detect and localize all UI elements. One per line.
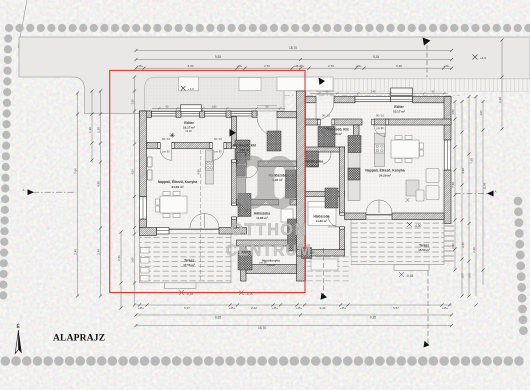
svg-text:A: A	[495, 190, 497, 194]
svg-text:7,36 m²: 7,36 m²	[332, 132, 342, 136]
left terrace	[140, 234, 232, 283]
svg-text:2,40: 2,40	[472, 247, 476, 253]
right bedroom bottom wall	[297, 250, 345, 257]
svg-text:9,35: 9,35	[215, 316, 221, 320]
left terrace sliding door line	[169, 228, 219, 230]
svg-text:2,40: 2,40	[117, 255, 121, 261]
svg-text:11,80 m²: 11,80 m²	[256, 216, 267, 220]
sidewalk pavers strip right of house	[295, 79, 530, 91]
section marker right	[455, 190, 497, 197]
svg-text:5,30: 5,30	[396, 64, 402, 68]
left corridor door	[237, 148, 249, 160]
right bath / bedroom wall	[306, 192, 345, 197]
furniture: left kitchen island	[206, 150, 214, 184]
rowB ticks	[134, 313, 453, 316]
right apron step	[311, 259, 338, 270]
svg-text:17,56 m²: 17,56 m²	[183, 263, 195, 267]
svg-text:15,50 m²: 15,50 m²	[418, 248, 430, 252]
rotated side labels	[73, 97, 502, 279]
left kitchen appliances	[237, 153, 246, 164]
left utility washer	[238, 251, 252, 270]
plot boundary line top-left	[18, 0, 27, 48]
left col ticks	[76, 75, 136, 309]
left terrace step	[165, 283, 197, 289]
street / pavement divider line	[155, 76, 284, 78]
svg-text:11,80 m²: 11,80 m²	[316, 219, 327, 223]
svg-text:9,35: 9,35	[215, 55, 221, 59]
Előtér star marker	[170, 133, 175, 138]
svg-text:9,35: 9,35	[370, 316, 376, 320]
left unit wall under entry hall	[147, 143, 161, 149]
left bath / bedroom wall	[237, 200, 279, 206]
right hob	[375, 144, 384, 153]
svg-text:4,90: 4,90	[196, 169, 200, 175]
living room section dash	[200, 150, 202, 282]
left wall window	[140, 197, 147, 220]
right unit top wall	[306, 97, 317, 103]
shared entry porch canopy	[277, 77, 333, 91]
level mark below left terrace	[179, 290, 184, 295]
rug / coffee table right living	[406, 180, 419, 196]
watermark letter C	[269, 161, 290, 204]
svg-text:10,17 m²: 10,17 m²	[393, 110, 405, 114]
right bedroom door	[328, 215, 340, 227]
svg-text:18,70: 18,70	[289, 46, 297, 50]
level mark right steps	[399, 272, 404, 277]
right wardrobe	[325, 188, 338, 208]
svg-text:+4,0: +4,0	[188, 87, 194, 91]
dimension labels	[137, 46, 450, 330]
left unit floor tiles	[147, 117, 232, 228]
svg-text:Hálószoba: Hálószoba	[254, 212, 270, 216]
svg-text:-0,45: -0,45	[406, 274, 413, 278]
bottom tree row	[1, 356, 524, 366]
svg-text:Előtér: Előtér	[184, 121, 194, 125]
right top windows	[355, 97, 391, 102]
left hall door 2	[212, 149, 224, 161]
top row 3 detail	[136, 67, 452, 69]
svg-text:4,90: 4,90	[96, 181, 100, 187]
svg-text:5,30: 5,30	[188, 64, 194, 68]
glazing piers	[176, 111, 181, 117]
north arrow	[19, 330, 22, 354]
svg-text:7,60: 7,60	[73, 168, 77, 174]
left unit top wall: glazed front band	[140, 111, 152, 117]
tiny wall dimension clusters	[152, 92, 448, 109]
left bedroom bottom wall	[237, 240, 297, 246]
svg-text:Előtér: Előtér	[394, 105, 404, 109]
right bath-bedroom side wall (vertical)	[340, 147, 345, 214]
right terrace side ladder bars	[444, 226, 454, 261]
svg-text:Terasz: Terasz	[419, 244, 429, 248]
section marker left	[23, 188, 77, 195]
bottom-left corner block	[140, 228, 157, 236]
left columns	[77, 93, 79, 296]
svg-text:7,60: 7,60	[469, 158, 473, 164]
left bath sink unit	[286, 170, 297, 198]
right unit corridor bottom wall	[306, 119, 321, 125]
left outer wall	[140, 111, 147, 197]
furniture: right sofa group	[416, 169, 439, 202]
left unit entry window box	[181, 105, 202, 112]
svg-text:24,29 m²: 24,29 m²	[379, 173, 391, 177]
left bath wardrobe	[238, 194, 251, 217]
svg-text:5,57: 5,57	[393, 306, 399, 310]
row1 ticks	[134, 49, 453, 52]
right corridor / bath wall	[306, 147, 345, 152]
right entry door	[316, 102, 334, 120]
svg-text:2,42: 2,42	[320, 306, 326, 310]
left corridor / bath wall	[237, 161, 247, 167]
right terrace	[351, 220, 444, 265]
right tree column	[514, 197, 528, 335]
right kitchen counter	[348, 153, 360, 201]
svg-text:7,60: 7,60	[451, 182, 455, 188]
radiators on left wall	[148, 157, 153, 180]
door size labels	[162, 114, 384, 265]
svg-text:2,40: 2,40	[73, 249, 77, 255]
left utility walls	[241, 246, 247, 281]
level mark below utility	[239, 291, 244, 296]
svg-text:Terasz: Terasz	[184, 259, 194, 263]
bottom row C total	[136, 325, 452, 327]
right terrace step	[394, 265, 429, 271]
level mark street right	[473, 55, 478, 60]
right hall doors	[320, 125, 332, 137]
furniture: left dining table	[156, 192, 188, 218]
svg-text:-4,30: -4,30	[414, 224, 421, 228]
left entry door	[257, 117, 277, 137]
right col ticks	[453, 38, 503, 306]
right terrace double door	[366, 200, 392, 213]
left unit corridor wall (vertical)	[232, 117, 237, 149]
right unit floor tiles	[306, 102, 445, 214]
svg-text:A: A	[23, 188, 25, 192]
svg-text:Nappali, Étkező, Konyha: Nappali, Étkező, Konyha	[158, 179, 197, 184]
top tree row	[5, 24, 530, 32]
svg-text:2,40: 2,40	[371, 90, 376, 93]
level mark front pavement	[181, 86, 186, 91]
svg-text:5,94 m²: 5,94 m²	[309, 164, 319, 168]
right kitchen stove block	[348, 136, 361, 153]
svg-text:1,30: 1,30	[88, 127, 92, 133]
left unit middle section floor	[237, 117, 297, 275]
right unit bedroom floor	[297, 190, 340, 250]
svg-text:2,40: 2,40	[461, 242, 465, 248]
left entry steps	[257, 106, 277, 109]
right bedroom-side block	[302, 248, 312, 259]
building line dash-dot	[284, 94, 460, 96]
svg-text:CENTRUM: CENTRUM	[226, 243, 312, 260]
svg-text:2,70: 2,70	[264, 64, 270, 68]
svg-text:7,36 m²: 7,36 m²	[240, 148, 250, 152]
svg-text:18,70: 18,70	[258, 326, 266, 330]
svg-text:Fürdőszoba: Fürdőszoba	[305, 160, 323, 164]
rowC ticks	[134, 324, 453, 327]
watermark letter O	[241, 161, 263, 204]
rowA ticks	[138, 303, 451, 306]
top row 1 total	[136, 50, 452, 52]
left terrace double door	[190, 214, 219, 229]
right entry steps	[316, 92, 334, 95]
svg-text:Hálószoba: Hálószoba	[314, 215, 330, 219]
entry canopy left window	[179, 77, 199, 91]
svg-text:1,50: 1,50	[451, 109, 455, 115]
street band with driveway stub and front pavement	[19, 37, 530, 114]
entry axis triangle	[319, 78, 326, 86]
left hob	[206, 162, 213, 171]
left entry closet	[235, 140, 250, 160]
svg-text:1,30: 1,30	[96, 127, 100, 133]
left bedroom door	[237, 206, 249, 218]
svg-text:2,40: 2,40	[96, 249, 100, 255]
right corridor closet	[318, 127, 335, 147]
svg-text:4,90: 4,90	[461, 168, 465, 174]
bottom row B halves	[136, 314, 452, 316]
svg-text:24,29 m²: 24,29 m²	[171, 185, 183, 189]
party wall	[297, 91, 306, 281]
right kitchen wall (vertical)	[354, 125, 360, 153]
svg-text:Közlekedő, Kht: Közlekedő, Kht	[233, 144, 257, 148]
right outer wall	[444, 97, 451, 141]
bottom axis dash right	[427, 271, 429, 344]
right shower	[307, 151, 319, 167]
svg-text:2,40: 2,40	[451, 243, 455, 249]
svg-text:ALAPRAJZ: ALAPRAJZ	[53, 334, 105, 344]
furniture: right kitchen island	[375, 134, 385, 167]
left bath cabinet	[288, 219, 297, 251]
svg-text:2,60: 2,60	[498, 97, 502, 103]
corridor window canopy	[239, 78, 261, 91]
right unit rear dashed apron	[297, 256, 352, 282]
right bath door	[320, 151, 333, 164]
level mark right terrace	[407, 222, 412, 227]
svg-text:OTTHON: OTTHON	[230, 221, 307, 239]
left shower	[267, 131, 281, 151]
driveway/pavement divider line	[145, 77, 156, 111]
svg-text:+4,9: +4,9	[480, 56, 486, 60]
left bath door	[247, 167, 259, 179]
svg-text:9,35: 9,35	[373, 55, 379, 59]
small level cross living	[406, 198, 410, 202]
bottom axis marker	[323, 248, 325, 295]
right columns	[454, 102, 456, 271]
right living / terrace walls	[345, 213, 367, 220]
furniture: right bed	[308, 202, 336, 226]
furniture: right dining table	[391, 136, 424, 163]
door lintel marks	[158, 119, 389, 229]
terrace planter boxes	[141, 248, 150, 282]
left unit bottom wall + window	[157, 228, 170, 235]
svg-text:2,70: 2,70	[328, 64, 334, 68]
tick marks	[76, 38, 504, 327]
row2 ticks	[134, 58, 453, 61]
svg-text:1,80: 1,80	[212, 105, 217, 108]
svg-text:10,17 m²: 10,17 m²	[183, 126, 195, 130]
row3 ticks	[134, 67, 453, 70]
right wall window	[444, 140, 451, 170]
svg-text:5,57: 5,57	[184, 306, 190, 310]
section arrow in left unit	[230, 129, 237, 137]
front pavement tile grid	[145, 77, 285, 111]
left tree column	[0, 35, 12, 300]
svg-text:Nappali, Étkező, Konyha: Nappali, Étkező, Konyha	[365, 168, 404, 173]
svg-text:2,42: 2,42	[251, 306, 257, 310]
bottom row A detail	[136, 304, 452, 306]
left kitchen counter	[237, 178, 246, 199]
top axis marker	[423, 38, 431, 46]
furniture: left bedroom cabinet	[281, 209, 293, 222]
top row 2 halves	[136, 59, 452, 61]
right entry canopy	[391, 88, 413, 96]
left hall door 1	[160, 149, 172, 161]
